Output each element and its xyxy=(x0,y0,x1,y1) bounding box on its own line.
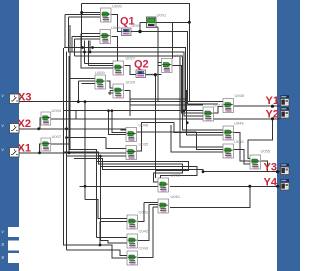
svg-text:U046: U046 xyxy=(139,123,149,128)
svg-text:X2: X2 xyxy=(18,118,31,130)
svg-text:U035: U035 xyxy=(139,142,149,147)
svg-text:Y2: Y2 xyxy=(266,109,279,121)
svg-text:C043: C043 xyxy=(139,246,149,251)
svg-text:Y3: Y3 xyxy=(264,162,277,174)
svg-text:U020: U020 xyxy=(126,80,136,85)
svg-text:U03: U03 xyxy=(146,72,154,77)
svg-text:Q2: Q2 xyxy=(134,59,149,71)
svg-text:U061: U061 xyxy=(171,194,181,199)
svg-text:U004: U004 xyxy=(52,108,62,113)
svg-text:U005: U005 xyxy=(112,4,122,9)
svg-text:Q1: Q1 xyxy=(120,16,135,28)
svg-text:U009: U009 xyxy=(95,70,105,75)
svg-text:U007: U007 xyxy=(52,134,62,139)
svg-text:U043: U043 xyxy=(234,139,244,144)
svg-text:X1: X1 xyxy=(18,143,31,155)
svg-text:Y4: Y4 xyxy=(264,176,278,188)
svg-text:U001: U001 xyxy=(157,13,167,18)
svg-text:Y1: Y1 xyxy=(266,95,279,107)
svg-text:C042: C042 xyxy=(139,229,149,234)
svg-text:C041: C041 xyxy=(139,210,149,215)
svg-text:U003: U003 xyxy=(171,173,181,178)
svg-text:U013: U013 xyxy=(214,103,224,108)
svg-text:U041: U041 xyxy=(174,53,184,58)
svg-text:U006: U006 xyxy=(235,93,245,98)
svg-text:X3: X3 xyxy=(18,92,31,104)
svg-text:U044: U044 xyxy=(234,121,244,126)
svg-text:U055: U055 xyxy=(261,149,271,154)
